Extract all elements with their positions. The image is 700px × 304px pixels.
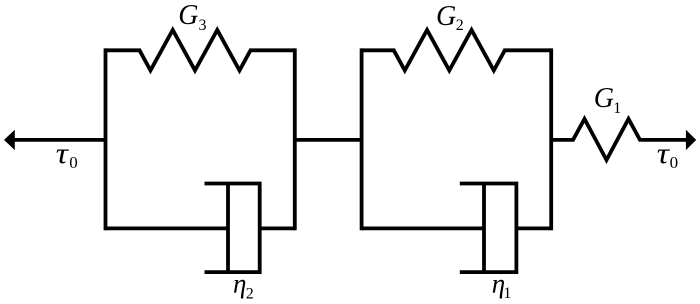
bottom rod right box1 — [260, 226, 295, 230]
svg-text:0: 0 — [670, 153, 679, 172]
top wire right segment box2 — [503, 48, 551, 52]
right vertical of box2 — [549, 48, 553, 230]
svg-text:2: 2 — [456, 17, 464, 34]
right vertical of box1 — [293, 48, 297, 230]
top wire left segment box1 — [106, 48, 142, 52]
svg-text:1: 1 — [503, 285, 511, 302]
middle connecting wire — [295, 138, 362, 142]
left vertical of Kelvin element (box 1) — [104, 48, 108, 230]
svg-text:1: 1 — [613, 100, 621, 117]
bottom rod right box2 — [516, 226, 551, 230]
svg-text:2: 2 — [246, 286, 254, 303]
spring G3 — [140, 30, 251, 70]
top wire right segment box1 — [249, 48, 295, 52]
svg-text:τ: τ — [56, 136, 70, 170]
bottom rod left box2 — [362, 226, 484, 230]
dashpot eta2 piston plate — [226, 182, 230, 274]
svg-text:G: G — [178, 0, 198, 31]
bottom rod left box1 — [106, 226, 229, 230]
top wire left segment box2 — [362, 48, 396, 52]
wire box2 to spring G1 — [551, 138, 574, 142]
dashpot eta1 piston plate — [482, 182, 486, 274]
spring G2 — [394, 30, 505, 70]
left arrow shaft (tau0) — [14, 138, 106, 142]
svg-text:G: G — [594, 83, 614, 114]
svg-text:0: 0 — [69, 153, 78, 172]
svg-text:τ: τ — [657, 136, 671, 170]
left vertical of Kelvin element (box 2) — [360, 48, 364, 230]
dashpot eta2 cylinder (open left) — [205, 184, 260, 273]
svg-text:η: η — [233, 269, 246, 299]
left arrowhead — [4, 130, 15, 150]
svg-text:G: G — [436, 1, 456, 32]
dashpot eta1 cylinder (open left) — [460, 184, 517, 273]
svg-text:3: 3 — [199, 17, 207, 34]
spring G1 — [573, 119, 640, 160]
wire spring G1 to right arrow — [639, 138, 688, 142]
right arrowhead — [686, 130, 696, 150]
